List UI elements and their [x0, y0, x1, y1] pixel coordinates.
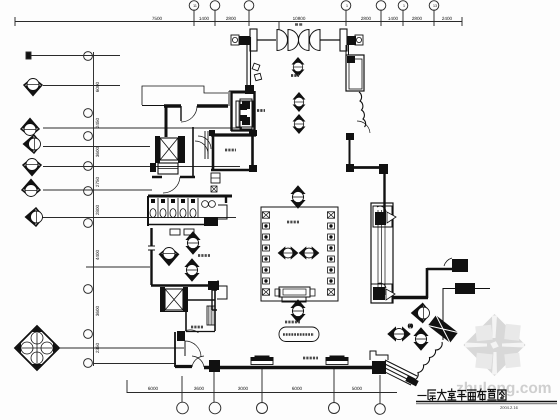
svg-text:13: 13: [433, 4, 437, 8]
svg-text:2004.2.16: 2004.2.16: [500, 405, 519, 410]
svg-text:3600: 3600: [95, 305, 100, 316]
svg-text:10800: 10800: [293, 16, 306, 21]
svg-text:2450: 2450: [95, 117, 100, 128]
svg-text:2800: 2800: [412, 16, 423, 21]
svg-text:2800: 2800: [361, 16, 372, 21]
svg-text:2800: 2800: [226, 16, 237, 21]
svg-text:5000: 5000: [352, 386, 363, 391]
svg-text:(4): (4): [408, 323, 414, 328]
svg-text:2800: 2800: [95, 204, 100, 215]
svg-text:1400: 1400: [199, 16, 210, 21]
svg-text:3600: 3600: [95, 146, 100, 157]
svg-text:6000: 6000: [148, 386, 159, 391]
svg-text:3000: 3000: [238, 386, 249, 391]
svg-text:6000: 6000: [95, 81, 100, 92]
svg-text:2400: 2400: [442, 16, 453, 21]
svg-text:4400: 4400: [95, 249, 100, 260]
svg-text:6000: 6000: [292, 386, 303, 391]
svg-text:3600: 3600: [194, 386, 205, 391]
svg-text:1: 1: [403, 4, 405, 8]
svg-text:2350: 2350: [95, 342, 100, 353]
svg-text:1: 1: [346, 4, 348, 8]
svg-text:2750: 2750: [95, 176, 100, 187]
svg-text:7500: 7500: [152, 16, 163, 21]
svg-text:11: 11: [193, 4, 197, 8]
svg-text:1400: 1400: [388, 16, 399, 21]
